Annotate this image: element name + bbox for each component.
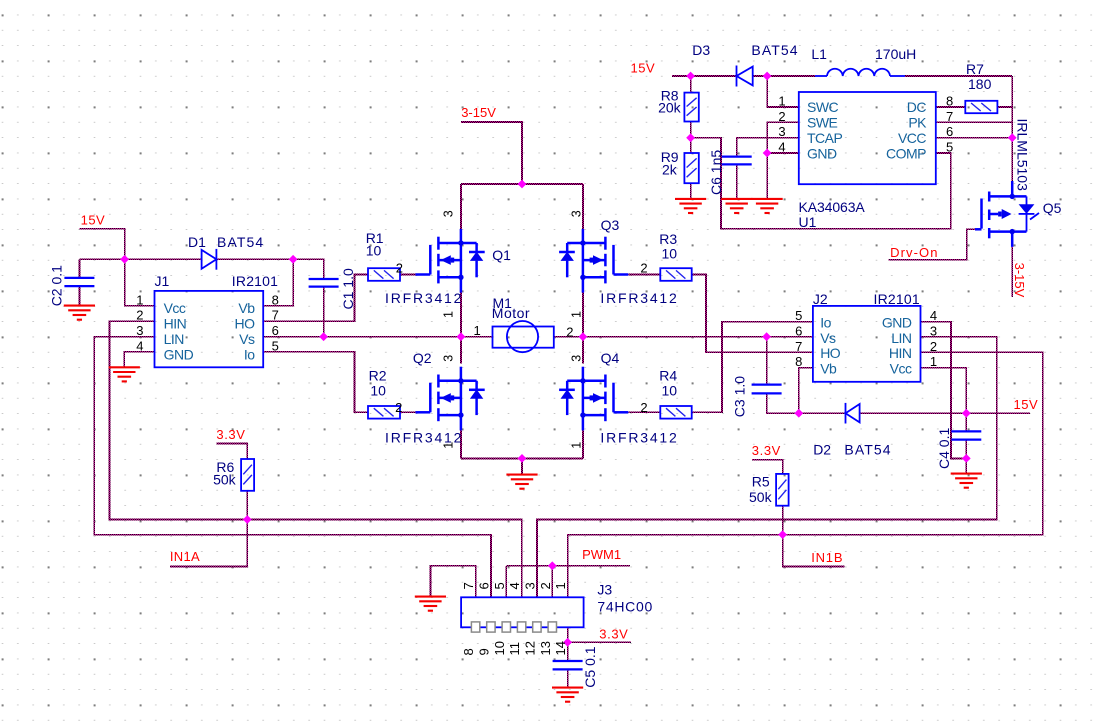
svg-text:J2: J2 xyxy=(813,291,828,307)
svg-text:11: 11 xyxy=(507,642,522,656)
resistor R6 xyxy=(241,459,254,491)
svg-text:7: 7 xyxy=(272,308,279,323)
svg-text:8: 8 xyxy=(946,94,953,109)
wire J1 LIN down to bus and J3 pin6 xyxy=(94,337,491,598)
inductor L1 xyxy=(815,75,827,77)
wire J2 Vb to D2 node xyxy=(799,368,813,414)
svg-text:TCAP: TCAP xyxy=(807,130,843,146)
svg-text:BAT54: BAT54 xyxy=(217,234,264,250)
svg-text:HO: HO xyxy=(820,345,841,361)
svg-text:4: 4 xyxy=(136,338,143,353)
svg-text:1: 1 xyxy=(474,323,481,338)
svg-text:IRFR3412: IRFR3412 xyxy=(385,290,463,306)
svg-text:IRFR3412: IRFR3412 xyxy=(600,430,678,446)
wire J1 GND to ground xyxy=(124,352,154,368)
wire R4 to J2 Io xyxy=(692,322,813,413)
svg-text:74HC00: 74HC00 xyxy=(597,598,653,614)
capacitor C5 xyxy=(553,661,583,669)
diode D2 BAT54 xyxy=(845,403,847,424)
svg-text:1: 1 xyxy=(569,442,583,449)
ground below H-bridge xyxy=(506,475,537,489)
svg-text:7: 7 xyxy=(795,339,802,354)
svg-text:C1 1.0: C1 1.0 xyxy=(340,268,356,309)
wire 15V power to J1 Vcc and C2 xyxy=(79,229,154,306)
svg-text:IN1B: IN1B xyxy=(811,550,843,565)
svg-text:C5 0.1: C5 0.1 xyxy=(582,646,598,687)
svg-text:2: 2 xyxy=(778,109,785,124)
svg-text:3: 3 xyxy=(136,323,143,338)
svg-text:10: 10 xyxy=(492,641,507,655)
svg-text:8: 8 xyxy=(461,648,476,655)
svg-text:COMP: COMP xyxy=(886,145,926,161)
svg-text:15V: 15V xyxy=(631,60,656,75)
motor M1 xyxy=(493,327,554,348)
svg-text:D3: D3 xyxy=(692,42,710,58)
transistor Q2 IRFR3412 xyxy=(416,367,485,431)
wire U1 TCAP to C6 xyxy=(737,138,799,157)
svg-text:2: 2 xyxy=(640,400,647,415)
wire top rail xyxy=(461,183,583,185)
svg-text:C4 0.1: C4 0.1 xyxy=(936,428,952,469)
svg-text:HIN: HIN xyxy=(889,345,912,361)
svg-text:9: 9 xyxy=(476,648,491,655)
wire J2 Vcc to 15V node xyxy=(921,368,967,414)
resistor R8 xyxy=(684,93,698,122)
svg-text:R3: R3 xyxy=(659,231,677,247)
svg-text:Vb: Vb xyxy=(820,360,837,376)
svg-text:PWM1: PWM1 xyxy=(582,547,621,562)
wire U1 PK xyxy=(936,121,1012,123)
svg-text:2: 2 xyxy=(538,582,553,589)
svg-text:3: 3 xyxy=(442,355,456,362)
svg-text:IRLML5103: IRLML5103 xyxy=(1015,119,1031,192)
svg-text:C3 1.0: C3 1.0 xyxy=(732,376,748,417)
svg-text:3-15V: 3-15V xyxy=(461,105,496,120)
svg-text:180: 180 xyxy=(968,76,992,92)
wire 15V right power rail xyxy=(672,75,737,77)
wire C3 from Vs row xyxy=(766,337,768,384)
wire Q5 source to 3-15V xyxy=(1011,247,1013,297)
svg-text:Vs: Vs xyxy=(820,330,836,346)
svg-text:IR2101: IR2101 xyxy=(874,291,920,307)
ground below C5 xyxy=(552,688,583,702)
transistor Q5 IRLML5103 xyxy=(975,181,1039,247)
svg-text:HO: HO xyxy=(235,316,256,332)
wire R7 to Q5 column xyxy=(997,106,1012,108)
wire R5 to IN1B junction xyxy=(782,506,784,535)
svg-text:4: 4 xyxy=(930,308,937,323)
svg-text:8: 8 xyxy=(272,292,279,307)
wire D3 cathode to L1 and U1 SWC xyxy=(753,75,815,77)
svg-text:2: 2 xyxy=(396,260,403,275)
transistor Q4 IRFR3412 xyxy=(559,367,628,431)
diode D3 BAT54 xyxy=(736,66,738,87)
component J2 IR2101 box xyxy=(813,306,921,382)
svg-text:Q5: Q5 xyxy=(1043,200,1062,216)
diode D1 BAT54 xyxy=(202,250,217,269)
wire J2 GND to C4 ground xyxy=(921,322,967,459)
svg-text:1: 1 xyxy=(569,311,583,318)
wire J1 Io to R2 xyxy=(263,352,368,413)
svg-text:3: 3 xyxy=(442,210,456,217)
svg-text:IRFR3412: IRFR3412 xyxy=(600,290,678,306)
svg-text:3: 3 xyxy=(522,582,537,589)
svg-text:J1: J1 xyxy=(155,273,170,289)
svg-text:KA34063A: KA34063A xyxy=(799,199,866,215)
svg-text:D2: D2 xyxy=(813,442,831,458)
svg-text:1: 1 xyxy=(930,354,937,369)
svg-text:BAT54: BAT54 xyxy=(844,442,891,458)
wire D2 cathode to 15V label xyxy=(860,412,1030,414)
resistor R1 xyxy=(368,268,400,281)
wire U1 VCC xyxy=(936,137,1012,139)
wire 3.3V to R6 xyxy=(216,444,247,460)
wire D1 anode from 15V node xyxy=(125,258,202,260)
svg-text:1: 1 xyxy=(136,292,143,307)
ground below C2 xyxy=(64,306,95,320)
svg-text:Motor: Motor xyxy=(492,305,530,321)
svg-text:3-15V: 3-15V xyxy=(1012,263,1027,298)
wire J1 Vs row to motor xyxy=(263,336,492,338)
svg-text:1: 1 xyxy=(442,442,456,449)
capacitor C6 xyxy=(722,157,752,165)
wire U1 DC to R7 xyxy=(936,106,966,108)
svg-text:2k: 2k xyxy=(662,162,678,178)
resistor R7 xyxy=(965,101,997,113)
svg-text:4: 4 xyxy=(778,140,785,155)
svg-text:6: 6 xyxy=(795,323,802,338)
svg-text:R5: R5 xyxy=(752,473,770,489)
svg-text:5: 5 xyxy=(946,140,953,155)
component J1 IR2101 box xyxy=(155,291,264,367)
wire J1 HIN down to bus and J3 pin4 xyxy=(109,321,521,597)
svg-text:L1: L1 xyxy=(811,46,827,62)
svg-text:J3: J3 xyxy=(597,581,612,597)
svg-text:2: 2 xyxy=(136,308,143,323)
wire J2 HIN to J3 pin1 bus xyxy=(568,352,1043,597)
svg-text:IR2101: IR2101 xyxy=(232,273,278,289)
svg-text:C2 0.1: C2 0.1 xyxy=(49,265,65,306)
svg-text:SWE: SWE xyxy=(807,115,838,131)
wire R6 to IN1A junction xyxy=(246,491,248,520)
svg-text:Io: Io xyxy=(244,346,255,362)
svg-text:6: 6 xyxy=(476,582,491,589)
ground below R9 xyxy=(675,199,706,213)
svg-text:PK: PK xyxy=(908,115,927,131)
svg-text:R4: R4 xyxy=(659,367,677,383)
component J3 74HC00 box xyxy=(461,597,583,627)
svg-text:LIN: LIN xyxy=(891,330,911,346)
svg-text:Vb: Vb xyxy=(238,300,255,316)
transistor Q1 IRFR3412 xyxy=(416,229,485,293)
svg-text:5: 5 xyxy=(272,338,279,353)
junction dots xyxy=(120,255,129,264)
svg-text:VCC: VCC xyxy=(898,130,926,146)
ground below J1 GND xyxy=(109,367,140,381)
wire Q1 source to motor to Q2 drain xyxy=(460,293,462,364)
wire Drv-On to Q5 gate xyxy=(889,229,975,259)
resistor R4 xyxy=(660,406,691,419)
resistor R3 xyxy=(660,268,691,281)
svg-text:Vcc: Vcc xyxy=(164,300,186,316)
wire J3 pin14 to 3.3V and C5 xyxy=(567,627,569,642)
svg-text:8: 8 xyxy=(795,354,802,369)
wire U1 SWE to GND junction xyxy=(767,122,799,153)
svg-text:7: 7 xyxy=(946,109,953,124)
wire J2 LIN to J3 pin3 bus xyxy=(537,337,997,598)
svg-text:4: 4 xyxy=(507,582,522,589)
svg-text:7: 7 xyxy=(461,582,476,589)
svg-text:6: 6 xyxy=(272,323,279,338)
svg-text:1: 1 xyxy=(442,311,456,318)
svg-text:2: 2 xyxy=(930,339,937,354)
svg-text:20k: 20k xyxy=(658,100,682,116)
svg-text:3: 3 xyxy=(930,323,937,338)
svg-text:R7: R7 xyxy=(966,61,984,77)
svg-text:Vs: Vs xyxy=(239,331,255,347)
svg-text:Io: Io xyxy=(820,314,831,330)
svg-text:3: 3 xyxy=(569,355,583,362)
wire J3 pin7 to ground xyxy=(430,566,475,598)
wire D2 anode xyxy=(799,412,846,414)
J3 no-connect squares pins 8-13 xyxy=(471,622,556,632)
ground below U1 GND xyxy=(752,199,783,213)
wire Q3 source to motor to Q4 drain xyxy=(582,293,584,364)
svg-text:GND: GND xyxy=(164,346,194,362)
svg-text:3: 3 xyxy=(569,210,583,217)
svg-text:R2: R2 xyxy=(369,367,387,383)
svg-text:HIN: HIN xyxy=(164,316,187,332)
wire D1 cathode to J1 Vb and C1 xyxy=(216,258,293,260)
wire R3 to J2 HO xyxy=(692,275,813,353)
wire motor right to J2 Vs xyxy=(554,336,813,338)
capacitor C1 xyxy=(309,279,339,287)
svg-text:12: 12 xyxy=(522,641,537,655)
svg-text:Q4: Q4 xyxy=(601,350,620,366)
wire 3.3V to R5 xyxy=(752,460,783,474)
wire J1 HO to R1 xyxy=(263,275,368,322)
wire R8 leads xyxy=(690,76,692,93)
svg-text:10: 10 xyxy=(366,243,382,259)
svg-text:10: 10 xyxy=(370,383,386,399)
svg-text:LIN: LIN xyxy=(164,331,184,347)
capacitor C2 xyxy=(64,278,94,286)
resistor R9 xyxy=(684,153,698,183)
svg-text:170uH: 170uH xyxy=(875,46,916,62)
svg-text:50k: 50k xyxy=(213,471,237,487)
component U1 KA34063A box xyxy=(799,92,936,184)
svg-text:3: 3 xyxy=(778,124,785,139)
svg-text:GND: GND xyxy=(807,145,837,161)
capacitor C4 xyxy=(951,431,981,439)
ground at J3 pin7 xyxy=(415,597,446,611)
wire R4 to Q4 gate xyxy=(629,411,661,413)
svg-text:3.3V: 3.3V xyxy=(216,427,245,442)
svg-text:U1: U1 xyxy=(799,214,817,230)
svg-text:GND: GND xyxy=(882,314,912,330)
wire C6 bottom xyxy=(736,165,738,199)
svg-text:Q3: Q3 xyxy=(601,217,620,233)
svg-text:2: 2 xyxy=(566,324,573,339)
wire IN1A label xyxy=(170,520,247,567)
resistor R2 xyxy=(368,406,400,419)
capacitor C3 xyxy=(752,385,782,394)
resistor R5 xyxy=(776,474,789,506)
wire R3 to Q3 gate xyxy=(629,274,661,276)
svg-text:1: 1 xyxy=(553,582,568,589)
wire C4 leads xyxy=(965,413,967,431)
svg-text:1: 1 xyxy=(778,94,785,109)
svg-text:Q2: Q2 xyxy=(413,350,432,366)
wire U1 COMP feedback to R8/R9 xyxy=(691,138,951,229)
svg-text:6: 6 xyxy=(946,124,953,139)
svg-text:Q1: Q1 xyxy=(492,247,511,263)
svg-text:5: 5 xyxy=(795,308,802,323)
ground below C4 xyxy=(951,474,982,488)
wire IN1B label xyxy=(783,535,845,567)
svg-text:15V: 15V xyxy=(1014,397,1039,412)
svg-text:SWC: SWC xyxy=(807,99,839,115)
svg-text:3.3V: 3.3V xyxy=(599,626,628,641)
wire bottom rail to ground xyxy=(460,430,462,458)
svg-text:5: 5 xyxy=(492,582,507,589)
svg-text:15V: 15V xyxy=(81,212,106,227)
svg-text:13: 13 xyxy=(538,641,553,655)
wire U1 GND to ground xyxy=(767,152,799,154)
transistor Q3 IRFR3412 xyxy=(559,229,628,293)
wire L1 to Q5 drain xyxy=(905,75,1012,77)
svg-text:2: 2 xyxy=(640,260,647,275)
svg-text:Drv-On: Drv-On xyxy=(890,245,939,260)
svg-text:14: 14 xyxy=(553,641,568,655)
wire R9 leads xyxy=(690,138,692,153)
ground below C6 xyxy=(721,199,752,213)
svg-text:D1: D1 xyxy=(188,234,206,250)
wire PWM1 xyxy=(506,565,630,567)
svg-text:50k: 50k xyxy=(749,489,773,505)
svg-text:2: 2 xyxy=(395,400,402,415)
svg-text:Vcc: Vcc xyxy=(890,360,912,376)
svg-text:DC: DC xyxy=(907,99,927,115)
svg-text:IN1A: IN1A xyxy=(170,549,200,564)
svg-text:BAT54: BAT54 xyxy=(751,42,798,58)
svg-text:C6 1n5: C6 1n5 xyxy=(708,150,724,195)
svg-text:10: 10 xyxy=(662,246,678,262)
svg-text:10: 10 xyxy=(662,383,678,399)
svg-text:3.3V: 3.3V xyxy=(752,443,781,458)
wire 3-15V power to top rail xyxy=(461,122,522,184)
